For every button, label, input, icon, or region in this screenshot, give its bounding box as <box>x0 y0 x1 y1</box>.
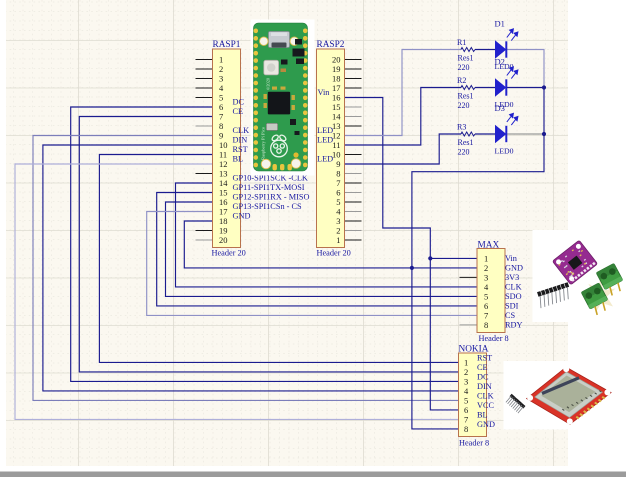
junction GND <box>410 266 414 270</box>
svg-text:3: 3 <box>219 74 223 84</box>
unconnected pin stubs RASP1 <box>196 59 213 61</box>
svg-text:GP11-SPI1TX-MOSI: GP11-SPI1TX-MOSI <box>233 183 305 192</box>
svg-text:15: 15 <box>332 102 341 112</box>
svg-text:11: 11 <box>332 140 340 150</box>
wire GND net: RASP1 pin18 to MAX pin2 <box>184 221 477 268</box>
wire RASP2 pin11 to R2 <box>345 88 462 146</box>
wire D1 cathode to rail top <box>507 50 544 88</box>
svg-text:RASP2: RASP2 <box>317 40 345 50</box>
svg-text:3: 3 <box>464 376 468 386</box>
svg-text:GP13-SPI1CSn - CS: GP13-SPI1CSn - CS <box>233 202 303 211</box>
svg-text:RASP1: RASP1 <box>213 40 241 50</box>
svg-text:Header 8: Header 8 <box>479 334 509 343</box>
svg-text:220: 220 <box>458 63 470 72</box>
svg-text:D1: D1 <box>495 19 505 29</box>
svg-text:CE: CE <box>477 363 488 372</box>
junction D2 rail <box>542 85 546 89</box>
svg-text:2: 2 <box>464 367 468 377</box>
svg-text:Res1: Res1 <box>458 138 474 147</box>
svg-text:6: 6 <box>219 102 223 112</box>
svg-text:1: 1 <box>484 253 488 263</box>
svg-text:CLK: CLK <box>505 282 522 291</box>
svg-text:GND: GND <box>505 263 523 272</box>
svg-text:220: 220 <box>458 101 470 110</box>
svg-text:GP12-SPI1RX - MISO: GP12-SPI1RX - MISO <box>233 193 310 202</box>
svg-text:6: 6 <box>484 301 488 311</box>
svg-text:GND: GND <box>233 212 251 221</box>
svg-text:RST: RST <box>233 145 248 154</box>
svg-text:6: 6 <box>464 405 468 415</box>
svg-text:Res1: Res1 <box>458 92 474 101</box>
resistor R3 <box>461 132 475 136</box>
svg-text:Raspberry Pi Pico: Raspberry Pi Pico <box>261 126 266 160</box>
svg-text:2: 2 <box>219 64 223 74</box>
svg-text:VCC: VCC <box>477 401 495 410</box>
wire GND rail: LED cathodes to NOKIA pin8 <box>412 88 544 429</box>
svg-text:1: 1 <box>219 55 223 65</box>
Raspberry Pi Pico module photo <box>251 20 315 176</box>
svg-text:DC: DC <box>477 372 489 381</box>
svg-text:DC: DC <box>233 98 245 107</box>
svg-text:16: 16 <box>219 197 228 207</box>
wire RST net: RASP1 pin11 to NOKIA pin1 <box>99 155 458 363</box>
svg-text:LED: LED <box>317 126 333 135</box>
wire R2 to D2 <box>475 87 496 89</box>
svg-text:Vin: Vin <box>318 88 331 97</box>
svg-text:MAX: MAX <box>478 241 500 251</box>
svg-text:8: 8 <box>484 320 488 330</box>
svg-text:9: 9 <box>219 131 223 141</box>
svg-text:2: 2 <box>336 226 340 236</box>
svg-text:1: 1 <box>336 235 340 245</box>
wire Vin net: RASP2 pin16 to MAX pin1 / NOKIA pin6 <box>345 98 459 410</box>
svg-text:R2: R2 <box>457 76 466 85</box>
wire RASP2 pin12 to R1 <box>345 50 462 136</box>
wire BL net: RASP1 pin12 to NOKIA pin7 <box>15 164 459 419</box>
svg-text:10: 10 <box>219 140 228 150</box>
svg-text:Header 8: Header 8 <box>459 439 489 448</box>
svg-text:LED: LED <box>317 136 333 145</box>
svg-text:BL: BL <box>477 410 488 419</box>
svg-text:8: 8 <box>219 121 223 131</box>
svg-text:19: 19 <box>219 226 228 236</box>
svg-text:13: 13 <box>332 121 341 131</box>
svg-text:©2020: ©2020 <box>266 77 271 90</box>
svg-text:7: 7 <box>336 178 340 188</box>
svg-text:8: 8 <box>464 424 468 434</box>
header MAX box <box>477 249 505 333</box>
svg-text:CE: CE <box>233 107 244 116</box>
wire Vin branch to MAX pin1 <box>430 257 477 259</box>
svg-text:14: 14 <box>332 112 341 122</box>
wire R3 to D3 <box>475 133 496 135</box>
MAX unconnected stubs pin3 pin8 <box>460 276 478 278</box>
svg-text:6: 6 <box>336 188 340 198</box>
svg-text:3: 3 <box>484 272 488 282</box>
LED D2 <box>496 67 518 96</box>
svg-text:17: 17 <box>332 83 341 93</box>
svg-text:LED: LED <box>317 155 333 164</box>
svg-text:18: 18 <box>219 216 228 226</box>
svg-text:RDY: RDY <box>505 320 523 329</box>
header RASP2 box <box>317 49 345 248</box>
svg-text:12: 12 <box>332 131 341 141</box>
svg-text:R1: R1 <box>457 38 466 47</box>
svg-text:2: 2 <box>484 263 488 273</box>
svg-text:SDO: SDO <box>505 292 522 301</box>
svg-text:5: 5 <box>336 197 340 207</box>
wire SPI CLK net: RASP1 pin14 to MAX pin4 <box>176 183 478 287</box>
svg-text:16: 16 <box>332 93 341 103</box>
svg-text:DIN: DIN <box>477 382 492 391</box>
wire CLK net: RASP1 pin9 to NOKIA pin5 <box>33 136 459 401</box>
wire MISO net: RASP1 pin16 to MAX pin5 <box>166 202 478 296</box>
svg-text:3: 3 <box>336 216 340 226</box>
svg-text:RST: RST <box>477 353 492 362</box>
junction D3 rail <box>542 132 546 136</box>
Nokia 5110 LCD module photo <box>504 361 626 430</box>
svg-text:5: 5 <box>484 291 488 301</box>
svg-text:5: 5 <box>464 395 468 405</box>
svg-text:1: 1 <box>464 357 468 367</box>
svg-text:CLK: CLK <box>477 391 494 400</box>
svg-text:5: 5 <box>219 93 223 103</box>
svg-text:7: 7 <box>219 112 223 122</box>
svg-text:Header 20: Header 20 <box>317 249 351 258</box>
junction Vin-MAX1 <box>428 256 432 260</box>
header RASP1 box <box>213 49 241 248</box>
wire D2 cathode to rail <box>507 87 544 89</box>
MAX31855 breakout module photo <box>533 230 626 322</box>
window bottom scrollbar band <box>0 472 626 478</box>
svg-text:Res1: Res1 <box>458 54 474 63</box>
svg-text:D2: D2 <box>495 57 505 67</box>
svg-text:7: 7 <box>464 414 468 424</box>
svg-text:220: 220 <box>458 147 470 156</box>
unconnected pin stubs RASP2 <box>345 59 362 61</box>
svg-text:CLK: CLK <box>233 126 250 135</box>
svg-text:12: 12 <box>219 159 228 169</box>
svg-text:CS: CS <box>505 311 516 320</box>
svg-text:DIN: DIN <box>233 136 248 145</box>
wire DIN net: RASP1 pin10 to NOKIA pin4 <box>43 145 459 391</box>
svg-text:D3: D3 <box>495 103 505 113</box>
svg-text:8: 8 <box>336 169 340 179</box>
svg-text:BL: BL <box>233 155 244 164</box>
svg-text:18: 18 <box>332 74 341 84</box>
wire CE net: RASP1 pin7 to NOKIA pin2 <box>79 117 458 372</box>
svg-text:20: 20 <box>332 55 341 65</box>
LED D1 <box>496 29 518 58</box>
svg-text:LED0: LED0 <box>495 146 514 155</box>
svg-text:10: 10 <box>332 150 341 160</box>
svg-text:14: 14 <box>219 178 228 188</box>
wire DC net: RASP1 pin6 to NOKIA pin3 <box>71 107 459 381</box>
svg-text:13: 13 <box>219 169 228 179</box>
wire R1 to D1 <box>475 49 496 51</box>
wire D3 cathode to rail <box>507 133 544 135</box>
resistor R2 <box>461 86 475 90</box>
svg-text:17: 17 <box>219 207 228 217</box>
svg-text:20: 20 <box>219 235 228 245</box>
wire RASP2 pin9 to R3 <box>345 134 462 164</box>
svg-text:Header 20: Header 20 <box>212 249 246 258</box>
wire MOSI net: RASP1 pin15 to MAX pin6 <box>157 193 477 306</box>
wire CS net: RASP1 pin17 to MAX pin7 <box>147 212 477 316</box>
svg-text:11: 11 <box>219 150 227 160</box>
header NOKIA box <box>459 353 487 437</box>
svg-text:19: 19 <box>332 64 341 74</box>
LED D3 <box>496 113 518 142</box>
svg-text:GND: GND <box>477 420 495 429</box>
svg-text:3V3: 3V3 <box>505 273 519 282</box>
svg-text:15: 15 <box>219 188 228 198</box>
svg-text:7: 7 <box>484 310 488 320</box>
svg-text:SDI: SDI <box>505 301 519 310</box>
resistor R1 <box>461 48 475 52</box>
svg-text:R3: R3 <box>457 123 466 132</box>
svg-text:Vin: Vin <box>505 254 518 263</box>
svg-text:9: 9 <box>336 159 340 169</box>
